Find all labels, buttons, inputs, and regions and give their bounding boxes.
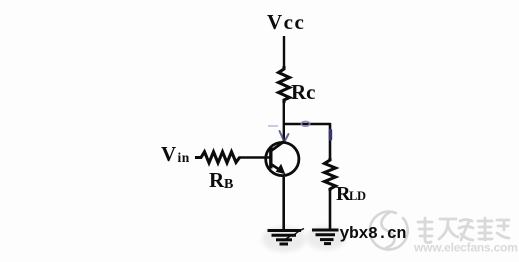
node: horizontal wire to RLD branch: [283, 123, 331, 126]
svg-text:R: R: [209, 168, 225, 192]
resistor RB: [201, 152, 240, 163]
wire RB to base: [239, 156, 271, 158]
transistor emitter segment: [272, 165, 282, 172]
wire RLD to ground: [329, 189, 332, 229]
transistor Q1 circle: [266, 142, 299, 175]
ground (emitter): [268, 231, 302, 245]
ground hatch marks (emitter): [283, 229, 304, 242]
transistor collector segment: [272, 142, 285, 151]
resistor RLD: [325, 158, 336, 191]
blue watermark remnant: smudge on collector wire: [280, 131, 289, 141]
emitter arrowhead: [277, 165, 285, 174]
emitter wire to ground: [282, 177, 285, 229]
blue watermark remnant: faint dash left of node: [268, 125, 278, 127]
svg-text:www.elecfans.com: www.elecfans.com: [413, 241, 518, 255]
wire Rc to collector node: [283, 101, 285, 142]
scan smudge around right ground: [306, 226, 346, 250]
blue watermark remnant: bar on right wire: [329, 131, 332, 140]
svg-text:Rc: Rc: [291, 80, 316, 104]
wire Vcc to Rc: [283, 36, 285, 68]
svg-text:in: in: [178, 150, 190, 165]
ground (RLD): [312, 230, 339, 244]
transistor base bar: [269, 147, 272, 169]
blue watermark remnant: oval on node wire: [301, 121, 309, 126]
input lead wire: [195, 156, 202, 159]
svg-text:V: V: [161, 142, 176, 166]
wire down to RLD: [329, 123, 332, 159]
svg-text:LD: LD: [349, 189, 366, 203]
svg-text:ybx8.cn: ybx8.cn: [340, 224, 407, 243]
watermark logo circle (gray swirl stamp): [370, 212, 408, 250]
watermark text 电子发烧友 (stylized light gray): [418, 218, 509, 243]
resistor Rc: [279, 66, 290, 103]
svg-text:Vcc: Vcc: [267, 10, 305, 34]
scan smudge around left ground: [262, 226, 306, 252]
svg-text:B: B: [224, 177, 233, 192]
